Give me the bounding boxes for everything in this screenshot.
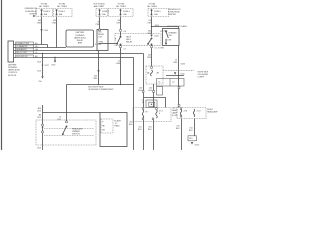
DRL module (left) box xyxy=(8,41,14,62)
DRL module caption xyxy=(8,63,20,76)
fuse box 2 (dashed) xyxy=(54,9,73,17)
RB pin label left xyxy=(160,31,162,33)
svg-text:ALL TIMES: ALL TIMES xyxy=(147,5,157,8)
right box RB xyxy=(163,29,180,46)
connector label box above lamp L xyxy=(142,91,166,108)
svg-text:SW: SW xyxy=(169,35,172,37)
lamp R filament HI xyxy=(180,108,187,118)
wire label x153 xyxy=(148,87,153,92)
label below dimmer box xyxy=(37,147,41,149)
wire label W3 xyxy=(96,21,101,26)
fuse box 3 (dashed) xyxy=(96,9,108,17)
svg-text:LAMPS (DRL): LAMPS (DRL) xyxy=(8,69,20,72)
wire label relay1 out xyxy=(116,60,121,65)
svg-text:RIGHT SIDE OF DASH: RIGHT SIDE OF DASH xyxy=(167,25,187,28)
relay box (dashed) xyxy=(115,34,161,46)
svg-text:ALL TIMES: ALL TIMES xyxy=(39,5,49,8)
relay center text xyxy=(126,36,133,43)
relay pin bottom 1 xyxy=(120,45,127,85)
header fuse1 xyxy=(39,3,49,9)
svg-text:ORN: ORN xyxy=(52,23,57,25)
box B internal lead xyxy=(99,42,109,44)
lamp L wire labels xyxy=(138,126,153,131)
fuse box 5 (dashed) xyxy=(148,9,169,17)
module row 5 xyxy=(14,55,134,58)
svg-text:FUSE-RELAY: FUSE-RELAY xyxy=(168,11,180,14)
label left of fuse box 1 xyxy=(24,8,37,17)
svg-text:ORN: ORN xyxy=(116,23,121,25)
svg-text:ORN: ORN xyxy=(147,23,152,25)
wire box B to relay contact xyxy=(108,43,117,45)
svg-text:LAMPS (DRL): LAMPS (DRL) xyxy=(74,36,86,39)
lamp R filament at x196 xyxy=(193,109,201,117)
wire W4 from fuse4 xyxy=(120,17,122,30)
connector arrow on x196 xyxy=(174,72,186,75)
fuse F3 xyxy=(99,9,110,16)
svg-text:4 ORN: 4 ORN xyxy=(158,47,164,49)
dashed box DB1 mid right xyxy=(146,66,163,84)
svg-text:HOT AT: HOT AT xyxy=(118,3,125,6)
header fuse2 xyxy=(57,3,67,9)
DB1 output wire xyxy=(153,84,155,108)
dashed sub-box inside xyxy=(101,119,113,133)
relay pin bottom 2 xyxy=(151,45,158,66)
lamp R caption right xyxy=(207,109,218,114)
fuse F5 xyxy=(151,9,162,16)
wire W1 from fuse1 xyxy=(41,17,43,45)
svg-text:ORN: ORN xyxy=(99,42,104,44)
svg-text:CONT: CONT xyxy=(166,40,172,42)
wire label W4 xyxy=(116,20,121,25)
row4 branch down xyxy=(38,53,43,150)
fuse F1 xyxy=(41,9,51,16)
svg-text:AND START: AND START xyxy=(94,5,105,8)
ground branch from row5 xyxy=(51,57,56,67)
wire label BLK xyxy=(37,61,41,63)
svg-text:4 ORN: 4 ORN xyxy=(95,44,101,46)
svg-text:ASM: ASM xyxy=(78,42,83,45)
small ref boxes below RB xyxy=(157,79,185,96)
label right of box A xyxy=(95,44,101,46)
header fuse5 xyxy=(147,3,157,9)
lamp R ground wires xyxy=(182,119,195,151)
headlamp box R (dashed) xyxy=(177,105,206,119)
wire label x196 xyxy=(173,59,186,65)
svg-text:ALL TIMES: ALL TIMES xyxy=(57,5,67,8)
svg-text:SWITCH: SWITCH xyxy=(72,134,80,136)
row3 drop at x98 xyxy=(98,51,100,85)
svg-text:COMPT: COMPT xyxy=(198,77,206,79)
branch wire to right xyxy=(152,27,179,29)
long wire left and down xyxy=(37,85,100,113)
dimmer switch symbol xyxy=(62,126,67,135)
fuse F2 xyxy=(56,9,66,16)
solid box bottom middle xyxy=(100,113,127,147)
relay switch 1 xyxy=(115,36,121,45)
svg-text:ORN: ORN xyxy=(93,78,98,80)
wire from y84 line down at x61 xyxy=(66,85,68,124)
label under y84.5 wire xyxy=(88,87,114,92)
fuse box 1 (dashed) xyxy=(36,9,53,17)
RB caption above xyxy=(167,25,187,28)
module row 3 xyxy=(14,48,99,51)
splice S234 xyxy=(163,71,194,77)
relay switch 2 xyxy=(148,38,153,45)
wire W5 from fuse5 xyxy=(151,17,153,35)
wire label W1 xyxy=(37,20,42,25)
lamp L ground wires xyxy=(144,120,154,150)
wire label BLK2 xyxy=(37,70,41,72)
wire label W2 xyxy=(52,20,57,25)
wire label W5 xyxy=(147,20,152,25)
label x61 wire xyxy=(57,116,62,121)
svg-text:DRL LP OUT: DRL LP OUT xyxy=(16,52,28,54)
svg-text:ALL TIMES: ALL TIMES xyxy=(116,5,126,8)
row4 drop at x143 xyxy=(143,54,145,108)
svg-text:OF ENGINE COMPARTMENT: OF ENGINE COMPARTMENT xyxy=(88,88,114,91)
splice S204 xyxy=(151,25,160,27)
svg-text:ORN: ORN xyxy=(173,62,178,64)
connector arrow on x98 xyxy=(97,70,99,85)
ground G105 xyxy=(188,136,200,147)
fuse box 4 (dashed) xyxy=(109,9,134,17)
label left of x42.5 bottom xyxy=(37,113,42,119)
lamp L filament LO xyxy=(152,108,163,120)
svg-text:4 LO: 4 LO xyxy=(197,110,202,112)
RB inner label xyxy=(158,47,164,49)
svg-text:HEADLAMP: HEADLAMP xyxy=(72,127,83,130)
svg-text:HOT AT: HOT AT xyxy=(59,3,66,6)
svg-text:FUSE 5: FUSE 5 xyxy=(44,11,52,13)
relay text right xyxy=(162,30,168,32)
row1 drop to row2 xyxy=(47,45,49,48)
svg-text:FUSE 5: FUSE 5 xyxy=(154,11,162,13)
header fuse4 xyxy=(116,3,126,9)
lamp R wire labels xyxy=(176,125,194,132)
wire W3 from fuse3 xyxy=(99,17,101,30)
module row 4 xyxy=(14,51,144,54)
label underhood fuse-relay center xyxy=(168,9,181,16)
svg-text:HOT AT: HOT AT xyxy=(149,3,156,6)
junction x133.5 to y84.5 xyxy=(99,58,135,151)
module row 2 xyxy=(14,45,67,48)
wire x196 down xyxy=(178,46,180,108)
splice S117 xyxy=(42,64,50,67)
wire label x143 xyxy=(138,87,143,92)
svg-text:4 HI: 4 HI xyxy=(184,110,188,112)
svg-text:CENTER: CENTER xyxy=(168,14,176,16)
wire label x98 xyxy=(93,75,98,80)
DRL module box A xyxy=(66,30,94,47)
svg-text:HI BEAM: HI BEAM xyxy=(169,31,177,34)
header fuse3 xyxy=(93,4,105,9)
relay pin top xyxy=(120,30,127,37)
wire W2 from fuse2 xyxy=(56,17,58,48)
headlamp box L (dashed) xyxy=(133,108,171,122)
svg-text:RELAY: RELAY xyxy=(126,41,133,44)
connector C100 on W5 xyxy=(150,35,159,38)
module row 1 xyxy=(14,42,48,45)
headlamp dimmer switch box (dashed) xyxy=(36,120,96,145)
pin on x61 entry xyxy=(66,121,68,123)
svg-text:TOR: TOR xyxy=(98,37,103,39)
switch pins on x42.5 xyxy=(42,124,44,133)
page left border xyxy=(1,0,3,150)
svg-text:FUSE 4: FUSE 4 xyxy=(123,11,131,13)
svg-text:GROUND FD: GROUND FD xyxy=(16,56,28,58)
svg-text:FUSE 2: FUSE 2 xyxy=(59,11,67,13)
svg-text:DAYTIME: DAYTIME xyxy=(76,31,85,34)
wire label 2-line mid right xyxy=(147,30,152,35)
svg-text:ORN: ORN xyxy=(116,63,121,65)
box caption inside xyxy=(115,119,122,127)
RB switch xyxy=(165,31,176,44)
DRL resistor box B xyxy=(97,29,108,51)
switch rows dashed xyxy=(44,129,94,136)
svg-text:PASS: PASS xyxy=(115,125,121,128)
S234 caption xyxy=(198,71,209,78)
connector C100 on W1 xyxy=(40,29,49,32)
svg-text:RELAY: RELAY xyxy=(77,39,84,42)
dimmer caption xyxy=(72,127,83,135)
svg-text:FLASH: FLASH xyxy=(115,119,122,122)
svg-text:HEADLAMP: HEADLAMP xyxy=(207,110,218,113)
svg-text:MODULE: MODULE xyxy=(8,75,17,77)
wire label relay2 out xyxy=(147,54,152,59)
svg-text:HOT AT: HOT AT xyxy=(41,3,48,6)
lamp L filament HI xyxy=(142,108,148,120)
fuse F4 xyxy=(120,9,131,16)
svg-text:DAYTIME: DAYTIME xyxy=(8,63,17,66)
lamp L caption right xyxy=(172,107,178,117)
svg-text:ORN: ORN xyxy=(37,23,42,25)
